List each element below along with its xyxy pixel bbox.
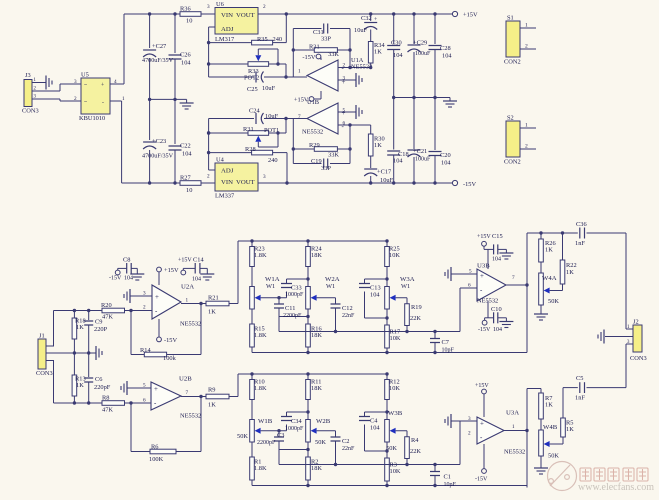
svg-text:1.8K: 1.8K (254, 385, 267, 392)
svg-text:C10: C10 (491, 306, 502, 313)
svg-text:1K: 1K (374, 49, 382, 56)
svg-text:C14: C14 (193, 257, 204, 264)
svg-text:R6: R6 (151, 444, 158, 451)
svg-text:2: 2 (525, 44, 528, 50)
svg-text:CON3: CON3 (22, 108, 39, 115)
svg-text:S1: S1 (507, 15, 514, 22)
svg-text:R20: R20 (101, 302, 112, 309)
svg-text:1: 1 (298, 69, 301, 75)
svg-text:-15V: -15V (463, 181, 476, 188)
svg-text:C25: C25 (247, 86, 258, 93)
svg-text:R8: R8 (102, 395, 109, 402)
svg-text:2200pF: 2200pF (257, 440, 276, 446)
svg-text:VOUT: VOUT (236, 179, 255, 186)
svg-text:C26: C26 (180, 52, 191, 59)
svg-text:10pF: 10pF (442, 348, 455, 354)
svg-text:240: 240 (268, 157, 278, 164)
svg-text:1.8K: 1.8K (254, 332, 267, 339)
svg-text:C8: C8 (123, 257, 130, 264)
svg-text:3: 3 (343, 76, 346, 82)
svg-text:W1: W1 (401, 283, 410, 290)
svg-text:+C23: +C23 (152, 138, 166, 145)
svg-text:S2: S2 (507, 115, 514, 122)
svg-text:+15V: +15V (463, 12, 478, 19)
svg-text:J3: J3 (25, 72, 31, 79)
svg-text:3: 3 (207, 4, 210, 10)
svg-text:-: - (102, 100, 104, 106)
svg-text:22nF: 22nF (342, 313, 355, 319)
svg-text:1: 1 (525, 123, 528, 129)
svg-text:C24: C24 (249, 108, 260, 115)
svg-text:5: 5 (143, 383, 146, 389)
svg-text:3: 3 (143, 291, 146, 297)
svg-text:100uF: 100uF (415, 157, 431, 163)
svg-text:1K: 1K (374, 142, 382, 149)
svg-text:W3A: W3A (400, 276, 415, 283)
svg-text:LM337: LM337 (215, 193, 234, 200)
svg-text:50K: 50K (548, 298, 559, 305)
svg-text:+: + (374, 17, 377, 23)
svg-text:3: 3 (74, 79, 77, 85)
svg-text:1K: 1K (545, 402, 553, 409)
svg-text:+: + (480, 272, 484, 280)
svg-text:+: + (101, 83, 104, 89)
svg-text:50K: 50K (548, 453, 559, 460)
svg-text:+15V: +15V (178, 258, 192, 264)
svg-text:U2A: U2A (181, 284, 194, 291)
svg-text:+C27: +C27 (152, 43, 166, 50)
svg-text:~: ~ (84, 100, 87, 106)
svg-text:1nF: 1nF (575, 240, 585, 247)
svg-text:R14: R14 (140, 347, 151, 354)
svg-text:+: + (480, 420, 484, 428)
svg-text:W4A: W4A (542, 275, 557, 282)
svg-text:10K: 10K (389, 385, 400, 392)
svg-text:R31: R31 (309, 44, 320, 51)
svg-text:W1B: W1B (258, 418, 273, 425)
svg-text:KBU1010: KBU1010 (79, 115, 105, 122)
svg-text:104: 104 (124, 276, 133, 282)
svg-text:C33: C33 (291, 285, 302, 292)
svg-text:10uF: 10uF (380, 177, 394, 184)
svg-text:2: 2 (343, 63, 346, 69)
svg-text:C5: C5 (576, 375, 583, 382)
svg-text:22nF: 22nF (342, 446, 355, 452)
svg-text:NE5532: NE5532 (351, 64, 372, 71)
svg-text:2: 2 (74, 96, 77, 102)
svg-text:10pF: 10pF (444, 482, 457, 488)
svg-text:C19: C19 (311, 158, 322, 165)
svg-text:C12: C12 (342, 305, 353, 312)
svg-text:+C21: +C21 (413, 148, 427, 155)
svg-text:W1: W1 (266, 283, 275, 290)
svg-text:50K: 50K (315, 439, 326, 446)
svg-text:R9: R9 (208, 387, 215, 394)
svg-text:W4B: W4B (543, 424, 558, 431)
svg-text:2: 2 (525, 144, 528, 150)
svg-text:C13: C13 (370, 285, 381, 292)
svg-text:-15V: -15V (109, 276, 122, 282)
svg-text:1K: 1K (208, 309, 216, 316)
svg-text:10K: 10K (389, 252, 400, 259)
svg-text:47K: 47K (102, 314, 113, 321)
svg-text:4700uF/35V: 4700uF/35V (142, 154, 174, 160)
svg-text:10: 10 (186, 187, 192, 194)
svg-text:22K: 22K (410, 315, 421, 322)
svg-text:R36: R36 (180, 6, 191, 13)
svg-text:POT2: POT2 (244, 75, 259, 82)
svg-text:-15V: -15V (478, 327, 491, 333)
svg-text:POT1: POT1 (264, 127, 279, 134)
svg-text:NE5532: NE5532 (504, 449, 525, 456)
svg-text:-15V: -15V (164, 337, 177, 344)
svg-text:+: + (154, 385, 158, 393)
svg-text:6: 6 (143, 398, 146, 404)
svg-text:7: 7 (512, 275, 515, 281)
svg-text:2: 2 (263, 4, 266, 10)
svg-text:U5: U5 (81, 72, 89, 79)
svg-text:1K: 1K (545, 247, 553, 254)
svg-text:CON3: CON3 (36, 370, 53, 377)
svg-text:22K: 22K (410, 448, 421, 455)
svg-text:+C17: +C17 (377, 169, 391, 176)
svg-text:C34: C34 (291, 418, 302, 425)
svg-text:W2B: W2B (316, 418, 331, 425)
svg-text:C11: C11 (285, 305, 295, 312)
svg-text:104: 104 (493, 327, 502, 333)
svg-text:R19: R19 (411, 304, 422, 311)
svg-text:6: 6 (343, 121, 346, 127)
svg-text:VIN: VIN (221, 179, 233, 186)
svg-text:7: 7 (186, 390, 189, 396)
svg-text:104: 104 (492, 257, 501, 263)
svg-text:C30: C30 (391, 40, 402, 47)
svg-text:CON2: CON2 (504, 59, 521, 66)
svg-text:1K: 1K (76, 324, 84, 331)
svg-text:100K: 100K (149, 456, 164, 463)
svg-text:C3: C3 (277, 432, 284, 439)
svg-text:2: 2 (468, 431, 471, 437)
svg-text:C36: C36 (576, 221, 587, 228)
svg-text:U1B: U1B (307, 99, 319, 106)
svg-text:-15V: -15V (475, 477, 488, 483)
svg-text:R31: R31 (243, 126, 254, 133)
svg-text:220pF: 220pF (94, 384, 111, 391)
svg-text:1: 1 (525, 23, 528, 29)
svg-text:C2: C2 (342, 438, 349, 445)
svg-text:104: 104 (393, 52, 403, 59)
svg-text:R21: R21 (208, 295, 219, 302)
svg-text:C4: C4 (370, 418, 378, 425)
svg-text:1K: 1K (76, 382, 84, 389)
svg-text:U4: U4 (216, 157, 225, 164)
svg-text:R35: R35 (257, 36, 268, 43)
svg-text:C6: C6 (95, 376, 102, 383)
svg-text:U6: U6 (216, 1, 224, 8)
svg-text:104: 104 (370, 425, 380, 432)
svg-text:10uF: 10uF (265, 113, 279, 120)
svg-text:+: + (155, 293, 159, 301)
svg-text:104: 104 (441, 160, 451, 167)
svg-text:1K: 1K (566, 269, 574, 276)
svg-text:7: 7 (298, 114, 301, 120)
svg-text:50K: 50K (386, 445, 397, 452)
svg-text:10: 10 (186, 18, 192, 25)
svg-text:1: 1 (512, 424, 515, 430)
svg-text:W3B: W3B (388, 410, 403, 417)
svg-text:100uF: 100uF (415, 51, 431, 57)
svg-text:NE5532: NE5532 (302, 129, 323, 136)
svg-text:C20: C20 (440, 152, 451, 159)
svg-text:J1: J1 (39, 333, 45, 340)
svg-text:VOUT: VOUT (236, 12, 255, 19)
svg-text:1nF: 1nF (575, 395, 585, 402)
svg-text:104: 104 (393, 158, 403, 165)
svg-text:CON3: CON3 (630, 355, 647, 362)
svg-text:5: 5 (469, 269, 472, 275)
svg-text:4700uF/35V: 4700uF/35V (142, 58, 174, 64)
svg-text:U2B: U2B (179, 376, 192, 383)
svg-text:2: 2 (207, 174, 210, 180)
svg-text:LM317: LM317 (215, 36, 234, 43)
svg-text:-15V: -15V (302, 54, 315, 61)
svg-text:1K: 1K (566, 426, 574, 433)
svg-text:18K: 18K (311, 332, 322, 339)
svg-text:2: 2 (143, 305, 146, 311)
svg-text:R4: R4 (411, 437, 419, 444)
svg-text:1000pF: 1000pF (285, 426, 304, 432)
svg-text:1: 1 (122, 96, 125, 102)
svg-text:R27: R27 (180, 175, 191, 182)
svg-text:R28: R28 (245, 146, 256, 153)
svg-text:2200pF: 2200pF (283, 313, 302, 319)
svg-text:33P: 33P (321, 165, 331, 172)
svg-text:220P: 220P (94, 326, 108, 333)
svg-text:J2: J2 (633, 319, 639, 326)
svg-text:104: 104 (442, 53, 452, 60)
svg-text:1.8K: 1.8K (254, 252, 267, 259)
svg-text:ADJ: ADJ (221, 26, 234, 33)
svg-text:1: 1 (186, 298, 189, 304)
svg-text:1K: 1K (208, 402, 216, 409)
svg-text:33P: 33P (321, 36, 331, 43)
svg-text:10uF: 10uF (354, 27, 368, 34)
svg-text:C32: C32 (361, 15, 372, 22)
svg-text:18K: 18K (311, 385, 322, 392)
svg-text:~: ~ (84, 83, 87, 89)
svg-text:U3A: U3A (506, 410, 519, 417)
svg-text:W2A: W2A (325, 276, 340, 283)
svg-text:47K: 47K (102, 407, 113, 414)
svg-text:C15: C15 (492, 233, 503, 240)
svg-text:240: 240 (273, 36, 283, 43)
svg-text:100k: 100k (163, 355, 177, 362)
svg-text:R29: R29 (309, 142, 320, 149)
svg-text:10uF: 10uF (262, 85, 276, 92)
svg-text:104: 104 (370, 292, 380, 299)
svg-text:10K: 10K (390, 335, 401, 342)
svg-text:NE5532: NE5532 (180, 321, 201, 328)
svg-text:+C29: +C29 (413, 40, 427, 47)
svg-text:+15V: +15V (477, 234, 491, 240)
svg-text:104: 104 (182, 151, 192, 158)
svg-text:+15V: +15V (475, 383, 489, 389)
svg-text:+15V: +15V (164, 267, 179, 274)
svg-text:NE5532: NE5532 (180, 413, 201, 420)
svg-text:33K: 33K (328, 152, 339, 159)
svg-text:1.8K: 1.8K (254, 465, 267, 472)
svg-text:1000pF: 1000pF (285, 292, 304, 298)
svg-text:5: 5 (343, 108, 346, 114)
svg-text:18K: 18K (311, 252, 322, 259)
svg-text:C28: C28 (440, 45, 451, 52)
svg-text:ADJ: ADJ (221, 168, 234, 175)
svg-text:10K: 10K (390, 468, 401, 475)
svg-text:C7: C7 (442, 339, 449, 346)
svg-text:C22: C22 (180, 143, 191, 150)
svg-text:3: 3 (263, 174, 266, 180)
svg-text:3: 3 (468, 416, 471, 422)
svg-text:6: 6 (468, 283, 471, 289)
svg-text:104: 104 (192, 277, 201, 283)
svg-text:R22: R22 (566, 262, 577, 269)
svg-text:VIN: VIN (221, 12, 233, 19)
svg-text:W1A: W1A (265, 276, 280, 283)
svg-text:CON2: CON2 (504, 159, 521, 166)
svg-text:33K: 33K (328, 51, 339, 58)
svg-text:104: 104 (181, 60, 191, 67)
svg-text:www.elecfans.com: www.elecfans.com (578, 482, 654, 493)
svg-text:W1: W1 (326, 283, 335, 290)
svg-text:18K: 18K (311, 465, 322, 472)
svg-text:50K: 50K (237, 433, 248, 440)
svg-text:C1: C1 (444, 474, 451, 481)
